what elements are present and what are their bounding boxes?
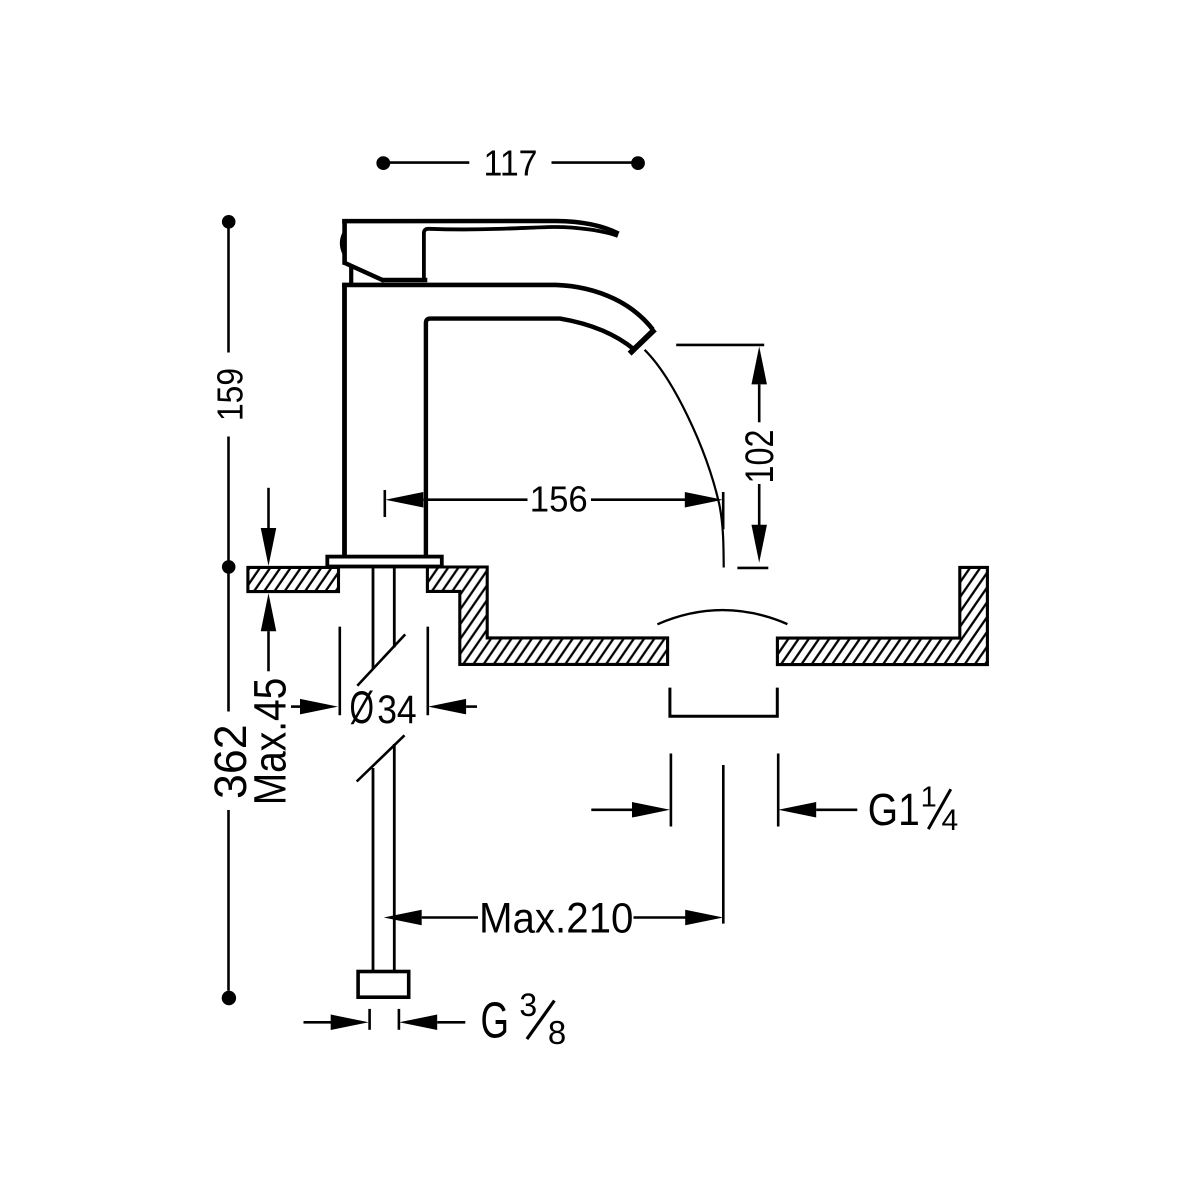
svg-text:G: G [481,992,510,1049]
svg-text:Max.45: Max.45 [244,678,295,806]
svg-text:G1: G1 [868,784,920,835]
svg-text:3: 3 [519,987,537,1023]
svg-text:102: 102 [738,430,782,484]
svg-text:156: 156 [530,479,588,520]
svg-text:Ø: Ø [350,682,375,733]
svg-text:8: 8 [548,1014,566,1051]
svg-text:4: 4 [942,804,959,837]
svg-text:Max.210: Max.210 [479,894,634,942]
svg-text:159: 159 [209,368,250,421]
svg-text:34: 34 [377,688,417,732]
svg-text:117: 117 [484,143,538,184]
svg-text:1: 1 [921,782,937,814]
